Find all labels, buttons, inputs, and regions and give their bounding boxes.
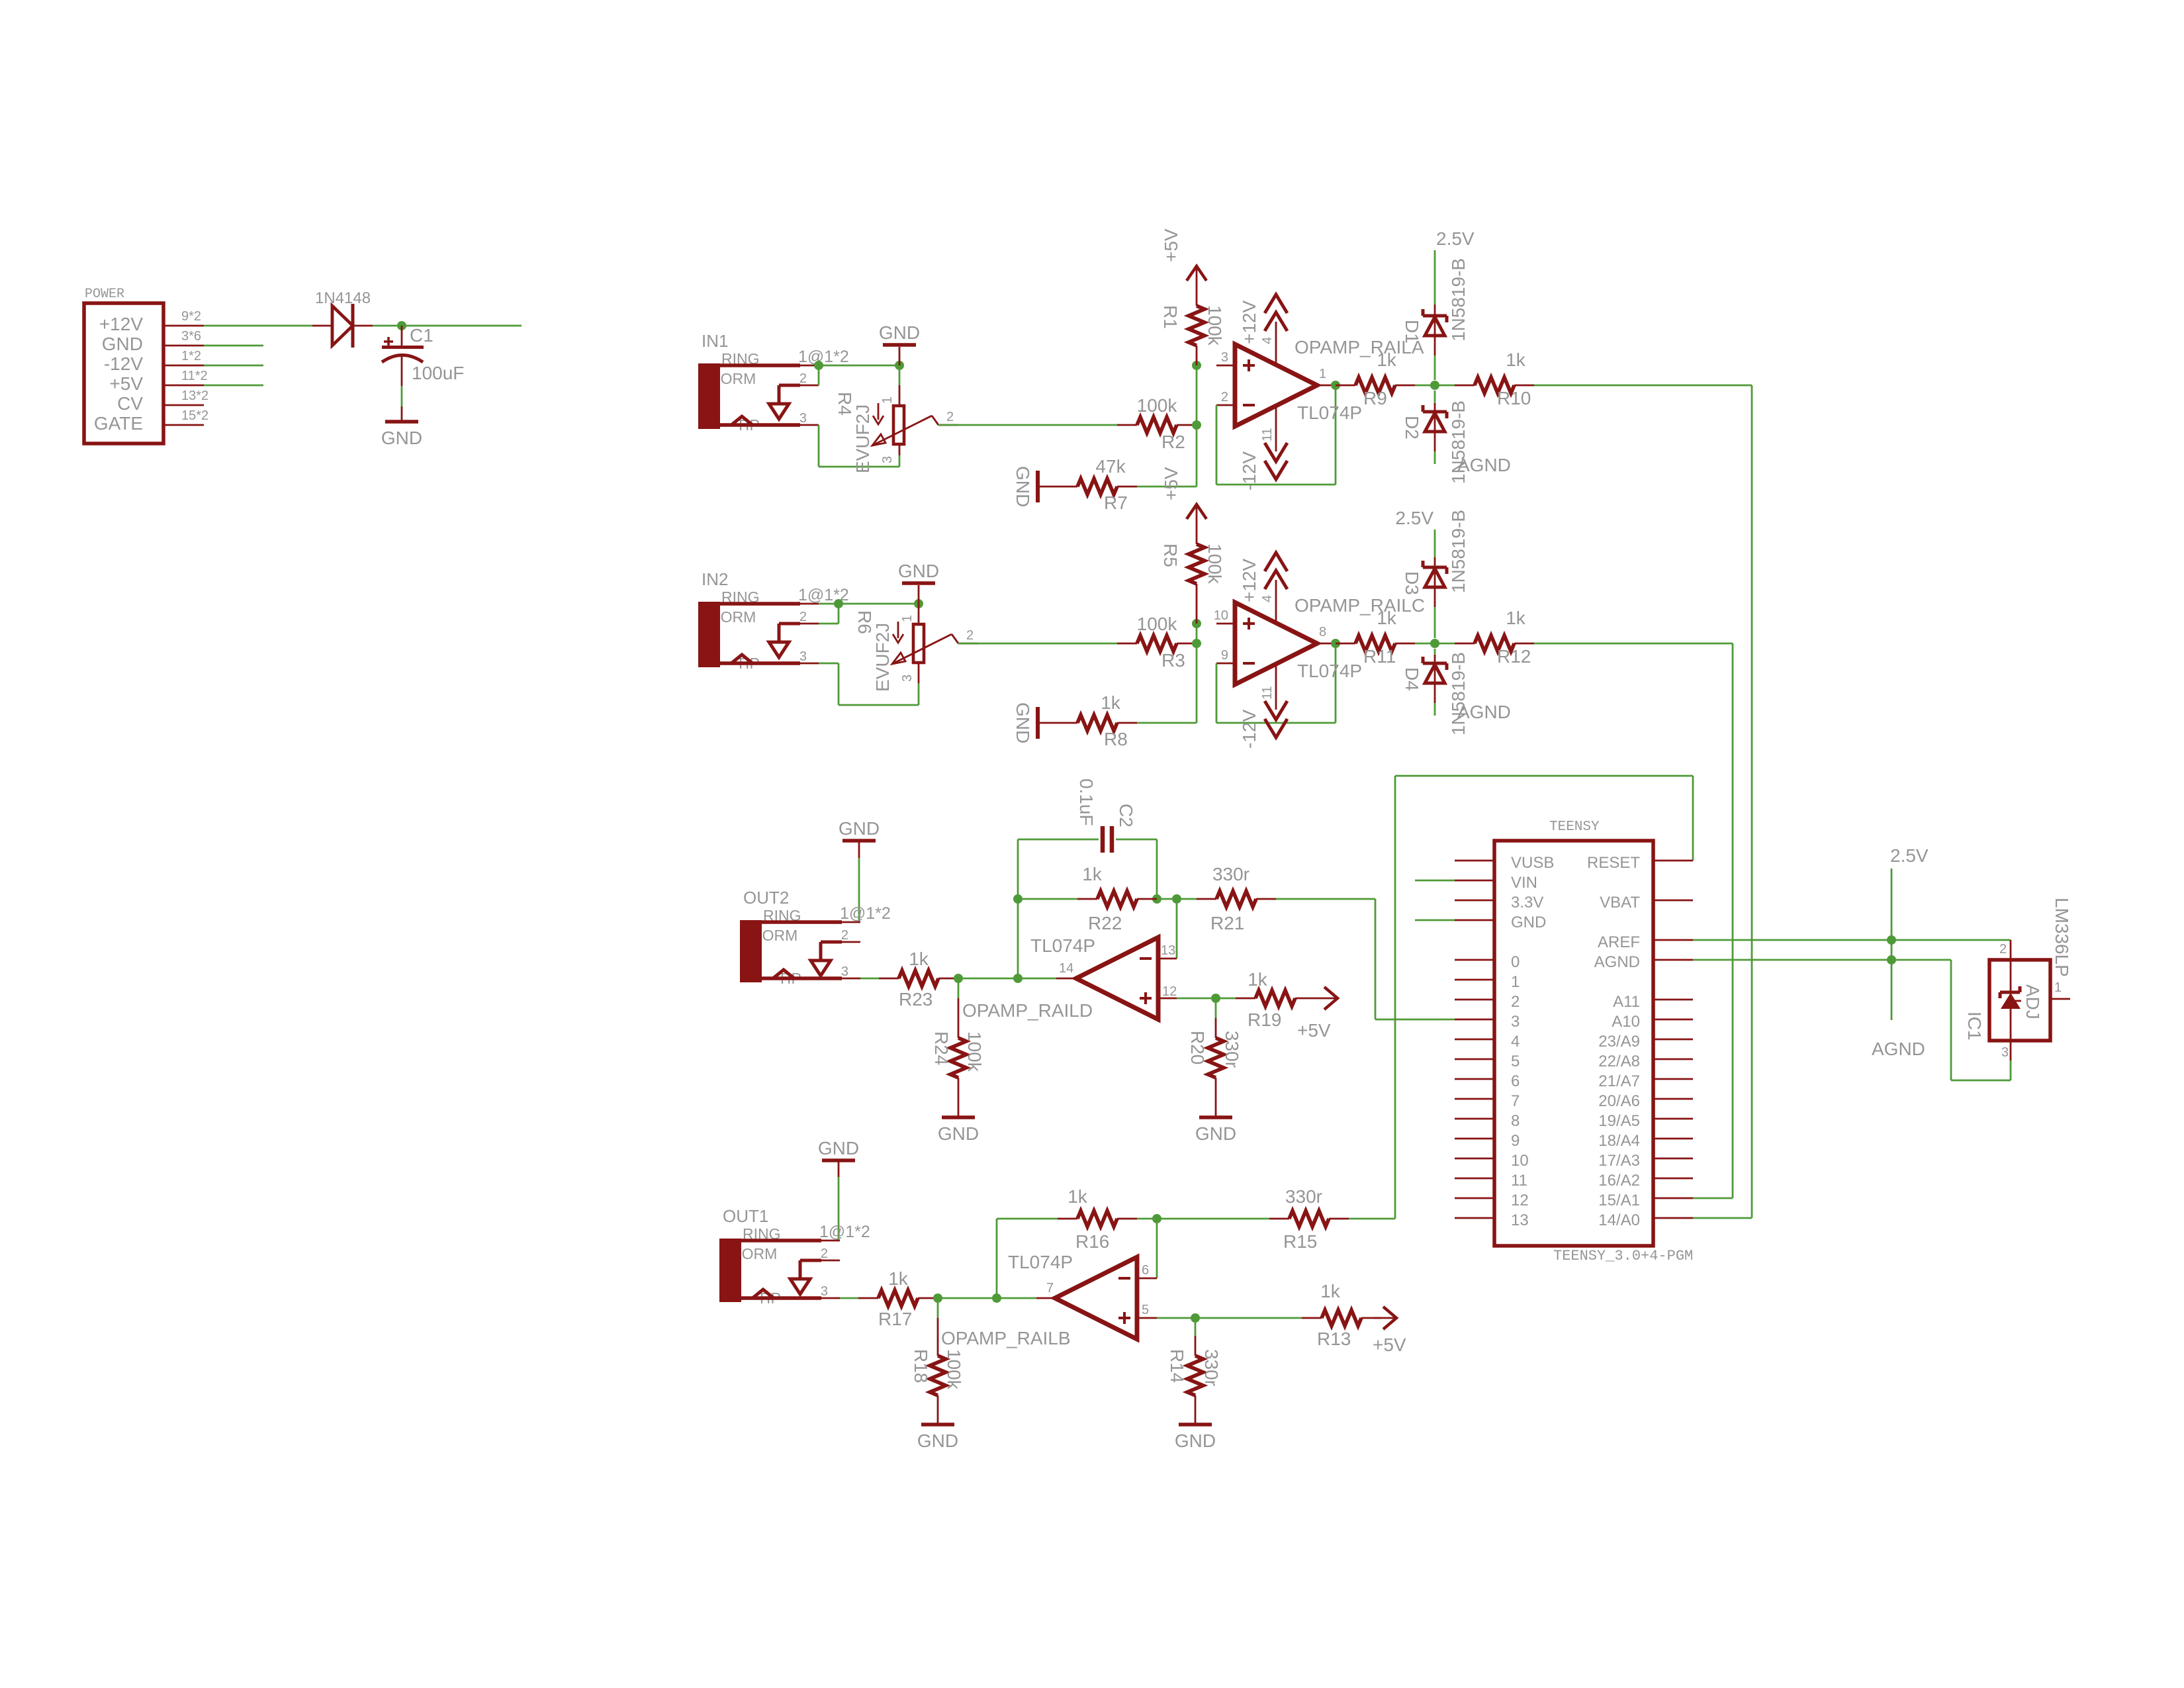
svg-text:1k: 1k [1506, 350, 1526, 370]
svg-text:R3: R3 [1161, 650, 1185, 671]
svg-text:3: 3 [880, 456, 895, 463]
svg-text:R16: R16 [1075, 1231, 1109, 1252]
svg-text:2.5V: 2.5V [1890, 845, 1929, 866]
svg-text:1@1*2: 1@1*2 [819, 1223, 870, 1241]
svg-text:LM336LP: LM336LP [2052, 898, 2072, 977]
svg-text:100k: 100k [1137, 614, 1178, 634]
svg-text:1N5819-B: 1N5819-B [1448, 652, 1469, 735]
svg-text:100k: 100k [964, 1031, 985, 1072]
svg-text:ADJ: ADJ [2023, 984, 2043, 1019]
svg-text:1k: 1k [1082, 864, 1103, 884]
svg-text:17/A3: 17/A3 [1598, 1152, 1640, 1170]
svg-text:GND: GND [1013, 702, 1033, 743]
svg-text:13: 13 [1511, 1211, 1529, 1229]
svg-text:A10: A10 [1612, 1013, 1640, 1031]
svg-text:R14: R14 [1167, 1349, 1187, 1383]
svg-text:1N4148: 1N4148 [315, 289, 371, 307]
svg-text:2: 2 [966, 628, 974, 643]
svg-text:2: 2 [1221, 390, 1228, 404]
svg-text:+12V: +12V [1239, 559, 1259, 602]
svg-text:6: 6 [1142, 1263, 1149, 1278]
svg-text:14: 14 [1059, 961, 1073, 976]
svg-text:2: 2 [1999, 942, 2007, 957]
svg-text:1k: 1k [1506, 608, 1526, 628]
svg-text:10: 10 [1511, 1152, 1529, 1170]
svg-text:+5V: +5V [1161, 467, 1181, 500]
svg-text:1@1*2: 1@1*2 [840, 904, 891, 923]
svg-text:3: 3 [1221, 350, 1228, 365]
svg-text:-12V: -12V [1239, 710, 1259, 749]
svg-text:+5V: +5V [1297, 1020, 1331, 1041]
svg-text:GND: GND [102, 334, 143, 354]
svg-text:C1: C1 [410, 325, 433, 346]
svg-text:R2: R2 [1161, 432, 1185, 452]
svg-text:R13: R13 [1317, 1329, 1351, 1349]
svg-text:AGND: AGND [1594, 953, 1640, 971]
svg-text:R12: R12 [1497, 646, 1531, 667]
svg-text:9*2: 9*2 [181, 309, 201, 324]
svg-text:-12V: -12V [104, 353, 143, 374]
svg-text:TL074P: TL074P [1297, 661, 1362, 681]
svg-text:POWER: POWER [85, 287, 124, 302]
svg-text:3: 3 [1511, 1013, 1520, 1031]
svg-text:3: 3 [799, 649, 807, 664]
svg-text:1k: 1k [1101, 692, 1121, 713]
svg-text:100k: 100k [944, 1349, 964, 1390]
svg-text:+5V: +5V [109, 373, 143, 394]
svg-text:+12V: +12V [99, 314, 143, 334]
svg-text:R21: R21 [1210, 913, 1244, 933]
svg-text:R22: R22 [1088, 913, 1122, 933]
svg-text:20/A6: 20/A6 [1598, 1092, 1640, 1110]
svg-text:VUSB: VUSB [1511, 854, 1554, 872]
svg-text:21/A7: 21/A7 [1598, 1072, 1640, 1090]
svg-text:R9: R9 [1363, 388, 1387, 408]
svg-text:3*6: 3*6 [181, 329, 201, 344]
svg-text:CV: CV [117, 393, 143, 414]
svg-text:GND: GND [1195, 1123, 1236, 1144]
svg-text:1@1*2: 1@1*2 [798, 348, 849, 366]
svg-text:GND: GND [381, 428, 422, 448]
svg-text:1: 1 [880, 397, 895, 404]
svg-text:+12V: +12V [1239, 301, 1259, 344]
svg-text:330r: 330r [1285, 1186, 1322, 1207]
svg-text:2.5V: 2.5V [1436, 228, 1475, 249]
svg-text:R5: R5 [1160, 543, 1181, 567]
svg-text:GND: GND [818, 1138, 859, 1158]
svg-text:AGND: AGND [1872, 1039, 1925, 1059]
svg-text:23/A9: 23/A9 [1598, 1033, 1640, 1051]
svg-text:C2: C2 [1116, 804, 1136, 827]
svg-text:2: 2 [946, 410, 954, 424]
svg-text:TL074P: TL074P [1297, 402, 1362, 423]
svg-text:1k: 1k [1248, 969, 1268, 990]
svg-text:1: 1 [2054, 980, 2062, 995]
svg-text:10: 10 [1214, 608, 1228, 623]
svg-text:100k: 100k [1205, 543, 1225, 585]
svg-text:R15: R15 [1283, 1231, 1317, 1252]
svg-text:100k: 100k [1137, 395, 1178, 416]
svg-text:D3: D3 [1402, 571, 1422, 595]
svg-text:1k: 1k [1320, 1281, 1341, 1301]
svg-text:GND: GND [1175, 1430, 1216, 1451]
svg-text:VIN: VIN [1511, 874, 1537, 892]
svg-text:IC1: IC1 [1964, 1011, 1985, 1041]
svg-text:1k: 1k [909, 949, 929, 969]
svg-text:2: 2 [841, 928, 848, 943]
svg-text:GND: GND [1013, 466, 1033, 507]
svg-text:11*2: 11*2 [181, 369, 208, 383]
svg-text:TEENSY_3.0+4-PGM: TEENSY_3.0+4-PGM [1553, 1248, 1693, 1264]
svg-text:19/A5: 19/A5 [1598, 1112, 1640, 1130]
svg-text:GND: GND [839, 818, 880, 839]
svg-text:1k: 1k [1068, 1186, 1088, 1207]
svg-text:GND: GND [1511, 914, 1546, 931]
svg-text:TL074P: TL074P [1030, 935, 1095, 956]
svg-text:R24: R24 [931, 1031, 952, 1065]
svg-text:5: 5 [1142, 1303, 1149, 1317]
svg-text:4: 4 [1260, 337, 1275, 344]
svg-text:330r: 330r [1212, 864, 1250, 884]
svg-text:14/A0: 14/A0 [1598, 1211, 1640, 1229]
svg-text:OPAMP_RAILD: OPAMP_RAILD [962, 1000, 1093, 1021]
svg-text:9: 9 [1221, 648, 1228, 663]
svg-text:D4: D4 [1402, 667, 1422, 691]
svg-text:13: 13 [1161, 943, 1175, 958]
svg-text:18/A4: 18/A4 [1598, 1132, 1640, 1150]
svg-text:R19: R19 [1248, 1009, 1281, 1030]
svg-text:R10: R10 [1497, 388, 1531, 408]
svg-text:+5V: +5V [1161, 228, 1181, 262]
svg-text:R11: R11 [1363, 646, 1396, 667]
svg-text:D2: D2 [1402, 416, 1422, 440]
svg-text:GND: GND [938, 1123, 979, 1144]
svg-text:1N5819-B: 1N5819-B [1448, 258, 1469, 342]
svg-text:-12V: -12V [1239, 451, 1259, 491]
svg-text:330r: 330r [1222, 1031, 1242, 1068]
svg-text:RESET: RESET [1587, 854, 1640, 872]
svg-text:3.3V: 3.3V [1511, 894, 1543, 912]
svg-text:R7: R7 [1104, 492, 1128, 513]
svg-text:AGND: AGND [1457, 702, 1511, 722]
svg-text:VBAT: VBAT [1600, 894, 1640, 912]
svg-text:2: 2 [799, 610, 807, 624]
svg-text:+5V: +5V [1373, 1335, 1406, 1355]
svg-text:A11: A11 [1613, 993, 1640, 1011]
svg-text:3: 3 [900, 675, 915, 682]
svg-text:11: 11 [1511, 1172, 1527, 1190]
svg-text:R8: R8 [1104, 729, 1128, 749]
svg-text:47k: 47k [1095, 456, 1126, 477]
svg-text:1N5819-B: 1N5819-B [1448, 510, 1469, 593]
svg-text:GND: GND [879, 322, 920, 343]
svg-text:3: 3 [821, 1284, 828, 1299]
svg-text:0.1uF: 0.1uF [1076, 778, 1097, 826]
svg-text:12: 12 [1511, 1192, 1529, 1209]
svg-text:GND: GND [898, 561, 939, 581]
svg-text:4: 4 [1260, 595, 1275, 602]
svg-text:OPAMP_RAILB: OPAMP_RAILB [941, 1328, 1071, 1348]
svg-text:1*2: 1*2 [181, 349, 201, 363]
svg-text:AREF: AREF [1598, 933, 1640, 951]
svg-text:2: 2 [799, 371, 807, 386]
svg-text:2: 2 [821, 1246, 828, 1261]
svg-text:11: 11 [1260, 428, 1275, 442]
svg-text:TL074P: TL074P [1008, 1252, 1073, 1272]
svg-text:D1: D1 [1402, 320, 1422, 344]
svg-text:EVUF2J: EVUF2J [852, 404, 873, 473]
svg-text:GATE: GATE [94, 413, 143, 434]
svg-text:0: 0 [1511, 953, 1520, 971]
svg-text:R18: R18 [911, 1349, 931, 1383]
svg-text:4: 4 [1511, 1033, 1520, 1051]
svg-text:IN2: IN2 [702, 569, 728, 589]
svg-text:15/A1: 15/A1 [1598, 1192, 1640, 1209]
svg-text:R1: R1 [1160, 305, 1181, 329]
svg-text:OUT2: OUT2 [743, 888, 789, 908]
svg-text:15*2: 15*2 [181, 408, 208, 423]
svg-text:1: 1 [1511, 973, 1520, 991]
svg-text:8: 8 [1511, 1112, 1520, 1130]
svg-text:16/A2: 16/A2 [1598, 1172, 1640, 1190]
svg-text:1k: 1k [888, 1268, 909, 1289]
svg-text:7: 7 [1511, 1092, 1520, 1110]
svg-text:1: 1 [900, 615, 915, 622]
svg-text:13*2: 13*2 [181, 389, 208, 403]
svg-text:2: 2 [1511, 993, 1520, 1011]
svg-text:11: 11 [1260, 686, 1275, 700]
svg-text:100k: 100k [1205, 305, 1225, 346]
svg-text:TEENSY: TEENSY [1549, 820, 1600, 835]
svg-text:7: 7 [1046, 1281, 1054, 1295]
svg-text:100uF: 100uF [412, 363, 464, 383]
svg-text:3: 3 [2001, 1045, 2009, 1060]
svg-text:8: 8 [1319, 625, 1326, 639]
svg-text:22/A8: 22/A8 [1598, 1053, 1640, 1070]
svg-text:2.5V: 2.5V [1395, 508, 1433, 528]
svg-text:IN1: IN1 [702, 331, 728, 351]
svg-text:OPAMP_RAILC: OPAMP_RAILC [1295, 595, 1425, 616]
svg-text:EVUF2J: EVUF2J [872, 623, 893, 692]
svg-text:6: 6 [1511, 1072, 1520, 1090]
svg-text:1k: 1k [1377, 350, 1397, 370]
svg-text:GND: GND [917, 1430, 958, 1451]
svg-text:3: 3 [841, 964, 848, 979]
svg-text:R23: R23 [899, 989, 933, 1009]
svg-text:R17: R17 [878, 1309, 912, 1329]
svg-text:12: 12 [1162, 984, 1177, 999]
svg-text:R20: R20 [1187, 1031, 1208, 1064]
svg-text:9: 9 [1511, 1132, 1520, 1150]
svg-text:AGND: AGND [1457, 455, 1511, 475]
svg-text:3: 3 [799, 411, 807, 426]
svg-text:5: 5 [1511, 1053, 1520, 1070]
svg-text:1k: 1k [1377, 608, 1397, 628]
svg-text:330r: 330r [1201, 1349, 1222, 1386]
svg-text:1: 1 [1319, 367, 1326, 381]
svg-text:OUT1: OUT1 [723, 1206, 768, 1226]
